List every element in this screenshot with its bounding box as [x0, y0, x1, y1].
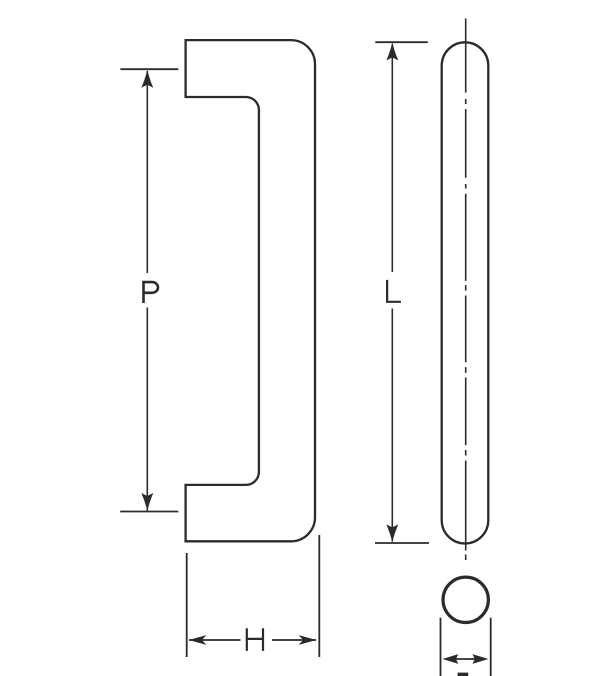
dimension H extension line right — [318, 535, 320, 657]
dimension D line — [450, 658, 481, 660]
centerline axis — [465, 19, 467, 561]
label H — [247, 628, 263, 651]
dimension L extension tick top — [375, 41, 428, 43]
dimension D extension line left — [440, 618, 442, 676]
dimension D arrowhead left — [442, 654, 458, 664]
dimension H line right segment — [272, 639, 316, 641]
dimension D extension line right — [490, 618, 492, 676]
dimension P arrowhead down — [141, 493, 153, 511]
handle front view outline — [186, 40, 315, 541]
label L — [387, 280, 401, 302]
cross-section circle — [443, 577, 488, 622]
dimension H arrowhead left — [189, 635, 207, 645]
label D (partially cut off at bottom) — [458, 673, 469, 676]
dimension L line lower segment — [391, 309, 393, 542]
dimension L arrowhead up — [386, 43, 398, 61]
dimension H extension line left — [186, 553, 188, 657]
handle side view capsule — [442, 42, 489, 543]
dimension L extension tick bottom — [375, 542, 429, 544]
dimension L arrowhead down — [386, 524, 398, 542]
dimension P arrowhead up — [141, 70, 153, 88]
dimension P extension tick bottom — [120, 511, 178, 513]
dimension H arrowhead right — [299, 635, 317, 645]
dimension D arrowhead right — [472, 654, 488, 664]
dimension P line lower segment — [146, 308, 148, 511]
dimension P extension tick top — [120, 68, 178, 70]
dimension L line upper segment — [391, 44, 393, 272]
dimension P line upper segment — [146, 71, 148, 273]
dimension H line left segment — [189, 639, 241, 641]
label P — [144, 282, 158, 303]
